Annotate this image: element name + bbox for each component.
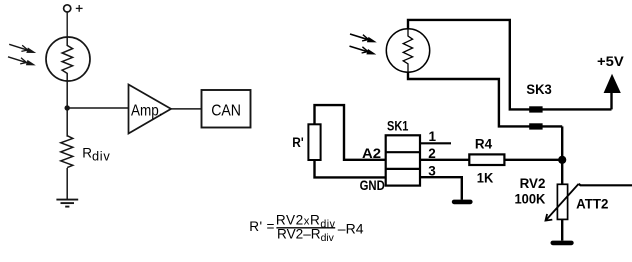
CAN box bbox=[202, 90, 251, 128]
pin 1 line bbox=[420, 142, 451, 144]
svg-text:SK1: SK1 bbox=[387, 119, 409, 134]
wire R' top loop to SK1 pin A2 bbox=[315, 105, 386, 160]
resistor R4 box bbox=[469, 154, 504, 165]
+5V power arrow bbox=[604, 74, 621, 93]
potentiometer RV2 box bbox=[557, 184, 567, 219]
wire LDR2 top loop to SK3 pin 1 bbox=[408, 20, 612, 110]
wiper line to right edge bbox=[579, 184, 632, 185]
svg-text:3: 3 bbox=[428, 164, 436, 179]
wire LDR2 bottom to SK3 pin 2 bbox=[408, 72, 562, 126]
light arrow 3 bbox=[350, 34, 377, 42]
wire terminal to LDR bbox=[66, 12, 68, 38]
zigzag inside LDR2 bbox=[403, 29, 412, 72]
svg-text:R4: R4 bbox=[475, 137, 493, 152]
ground bar (RV2) bbox=[553, 241, 572, 246]
formula R' = RV2xRdiv/RV2-Rdiv - R4 bbox=[249, 213, 363, 245]
SK1 connector box bbox=[386, 135, 420, 185]
SK3 pin bar lower bbox=[529, 123, 542, 129]
wire SK3 pin2 down to node B bbox=[561, 126, 563, 184]
SK3 pin bar upper bbox=[529, 106, 542, 112]
svg-text:R': R' bbox=[292, 135, 303, 150]
svg-text:CAN: CAN bbox=[211, 103, 241, 120]
svg-text:ATT2: ATT2 bbox=[576, 197, 608, 212]
photoresistor LDR1 circle bbox=[46, 37, 90, 81]
svg-text:+5V: +5V bbox=[597, 54, 624, 69]
wire RV2 to ground bbox=[561, 219, 563, 240]
wire Rdiv to ground bbox=[66, 168, 68, 200]
svg-text:RV2: RV2 bbox=[520, 176, 546, 191]
svg-text:1K: 1K bbox=[477, 171, 494, 186]
svg-text:Amp.: Amp. bbox=[131, 103, 163, 120]
photoresistor LDR2 circle bbox=[386, 29, 429, 72]
wiper arrow of RV2 bbox=[546, 184, 579, 221]
node A (junction dot) bbox=[65, 105, 70, 110]
svg-text:SK3: SK3 bbox=[526, 82, 552, 97]
wire +5V down bbox=[610, 91, 612, 109]
svg-text:2: 2 bbox=[428, 146, 436, 161]
wire node to Rdiv bbox=[66, 108, 68, 137]
light arrow 2 bbox=[8, 57, 36, 66]
svg-text:GND: GND bbox=[360, 178, 385, 193]
svg-text:R' =: R' = bbox=[249, 219, 275, 234]
svg-text:A2: A2 bbox=[362, 146, 381, 161]
svg-text:1: 1 bbox=[429, 129, 437, 144]
ground bar (SK1 pin3) bbox=[454, 200, 470, 205]
R' resistor box bbox=[308, 124, 320, 160]
terminal circle + supply bbox=[64, 5, 71, 12]
light arrow 4 bbox=[350, 46, 377, 54]
light arrow 1 bbox=[9, 44, 36, 53]
plus sign label bbox=[76, 5, 83, 12]
wire R4 to node B bbox=[504, 159, 562, 161]
wire node to amp bbox=[67, 107, 128, 109]
svg-text:100K: 100K bbox=[515, 192, 546, 207]
svg-text:–R4: –R4 bbox=[338, 220, 364, 236]
pin 2 line to R4 bbox=[420, 159, 469, 161]
wire amp to CAN bbox=[171, 108, 202, 110]
pin 3 line to ground bbox=[420, 177, 462, 200]
resistor Rdiv zigzag bbox=[61, 136, 73, 168]
op-amp Amp. triangle bbox=[129, 85, 172, 134]
wire LDR to node bbox=[66, 81, 68, 108]
ground (left) bbox=[56, 200, 78, 207]
wire R' bottom to SK1 GND bbox=[315, 160, 386, 177]
zigzag resistor inside LDR bbox=[62, 38, 73, 81]
node B junction dot bbox=[558, 156, 566, 164]
